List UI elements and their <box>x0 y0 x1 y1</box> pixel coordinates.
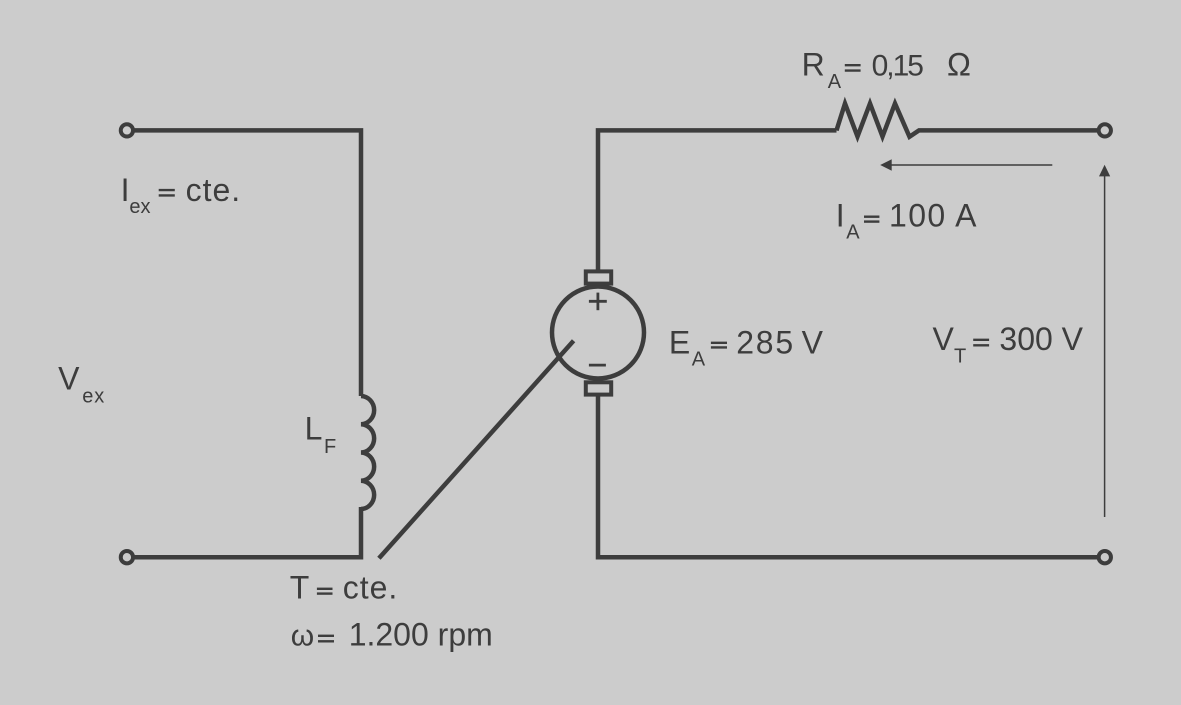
svg-text:R: R <box>802 46 825 82</box>
svg-text:L: L <box>305 411 323 447</box>
svg-text:V: V <box>802 325 824 361</box>
svg-text:A: A <box>828 71 842 93</box>
svg-text:285: 285 <box>736 325 795 361</box>
svg-text:100 A: 100 A <box>889 197 978 233</box>
svg-text:ω: ω <box>291 619 314 652</box>
svg-text:E: E <box>669 325 690 361</box>
svg-text:300: 300 <box>999 321 1052 357</box>
svg-text:1.200 rpm: 1.200 rpm <box>349 616 493 652</box>
svg-text:F: F <box>324 436 336 458</box>
svg-text:T: T <box>290 570 310 606</box>
svg-text:ex: ex <box>82 385 105 407</box>
svg-text:Ω: Ω <box>947 46 971 82</box>
svg-text:I: I <box>836 197 845 233</box>
svg-text:0,15: 0,15 <box>872 49 924 82</box>
svg-text:cte.: cte. <box>186 172 242 208</box>
svg-text:V: V <box>933 321 955 357</box>
svg-text:V: V <box>1062 321 1084 357</box>
svg-text:cte.: cte. <box>343 570 399 606</box>
svg-text:A: A <box>846 222 860 244</box>
svg-text:A: A <box>692 348 706 370</box>
svg-text:T: T <box>954 346 966 368</box>
svg-text:ex: ex <box>129 196 150 218</box>
svg-text:I: I <box>121 172 130 208</box>
svg-text:V: V <box>58 361 80 397</box>
